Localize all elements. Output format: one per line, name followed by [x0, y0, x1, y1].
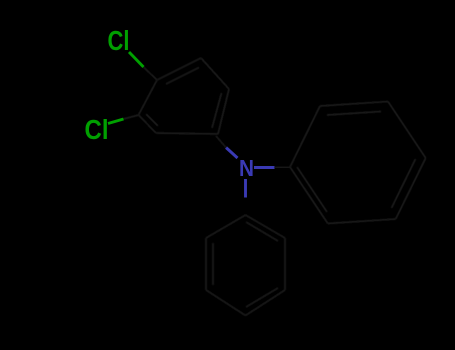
- wire B-LR: [246, 290, 286, 316]
- chlorine Cl2 bond green half: [108, 119, 124, 124]
- wire UL-LL: [205, 238, 207, 290]
- aromatic inner line B-LR: [246, 288, 278, 307]
- bond N-C1 dark half: [216, 136, 226, 148]
- wire V1-V2: [290, 106, 320, 167]
- bond N-ring2 blue half: [254, 166, 275, 169]
- wire C2-C3: [139, 115, 157, 133]
- aromatic inner line UR-T: [246, 222, 278, 241]
- aromatic inner line C6-C1: [212, 93, 222, 128]
- aromatic inner line C2-C3: [146, 114, 158, 126]
- svg-text:Cl: Cl: [85, 114, 109, 145]
- bond N-ring3 dark half: [245, 198, 247, 216]
- aromatic inner line V4-V5: [392, 159, 416, 208]
- wire V4-V5: [396, 158, 426, 219]
- aromatic inner line C4-C5: [166, 68, 199, 85]
- aromatic inner line V2-V3: [327, 112, 381, 116]
- chlorine Cl2 bond dark half: [124, 115, 139, 119]
- aromatic inner line UL-LL: [212, 243, 214, 285]
- svg-text:N: N: [239, 155, 254, 181]
- benzene ring 2 (right, large): [290, 102, 426, 224]
- aromatic inner line V6-V1: [297, 167, 327, 212]
- wire C6-C1: [218, 89, 229, 134]
- benzene ring 1 (3,4-dichlorophenyl) carbon skeleton: [139, 58, 230, 134]
- bond N-ring2 dark half: [275, 166, 291, 169]
- chlorine Cl1 bond dark half: [144, 67, 158, 80]
- wire V6-V1: [290, 167, 328, 224]
- wire C5-C6: [201, 58, 229, 89]
- benzene ring 3 (bottom): [206, 215, 285, 316]
- wire LL-B: [206, 290, 246, 316]
- wire C1-C2: [156, 133, 218, 134]
- wire T-UL: [206, 215, 246, 238]
- wire C4-C5: [157, 58, 201, 80]
- bond N-ring3 blue half: [244, 179, 247, 198]
- wire V5-V6: [328, 219, 396, 224]
- wire LR-UR: [284, 238, 286, 290]
- wire UR-T: [246, 215, 286, 238]
- wire V3-V4: [388, 102, 426, 159]
- svg-text:Cl: Cl: [108, 25, 130, 56]
- wire V2-V3: [320, 102, 388, 107]
- bond N-C1 blue half: [226, 148, 238, 159]
- chlorine Cl1 bond green half: [129, 52, 144, 67]
- wire C3-C4: [139, 80, 158, 115]
